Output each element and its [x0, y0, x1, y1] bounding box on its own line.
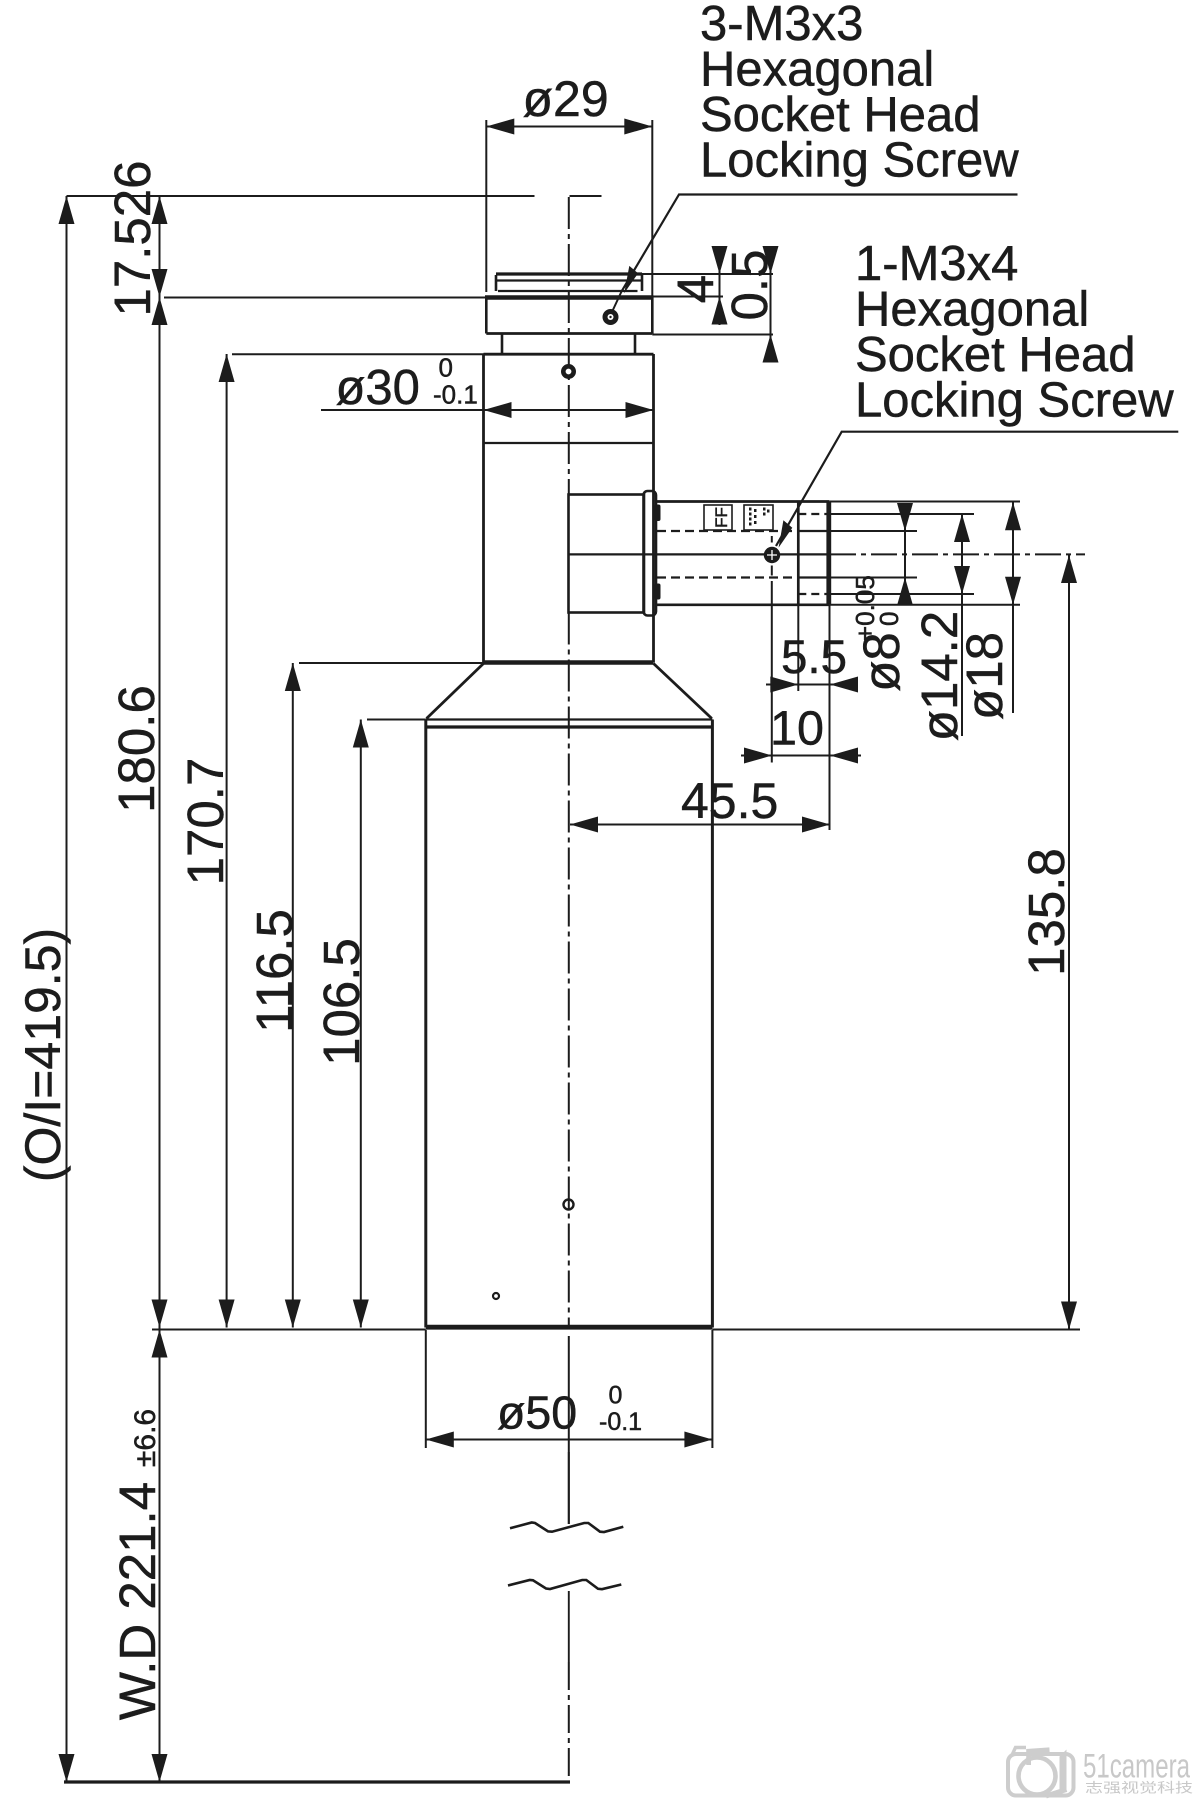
shoulder extension to left y663 — [299, 662, 484, 664]
o50 dimension line — [426, 1439, 713, 1441]
o29 right extension — [651, 120, 653, 296]
break (zigzag) symbol upper — [510, 1523, 623, 1533]
connector top edge extension right — [829, 501, 1020, 503]
ring top extension right y296.5 — [652, 296, 723, 298]
o50 cylinder — [426, 720, 713, 1328]
O/I top arrow — [59, 196, 75, 224]
o50 right extension down — [711, 1330, 713, 1448]
svg-text:106.5: 106.5 — [313, 938, 370, 1066]
o30 cylinder — [484, 354, 654, 663]
116.5 dimension line — [292, 663, 294, 1328]
step extension down x798.3 — [797, 605, 799, 691]
svg-text:ø50: ø50 — [497, 1387, 577, 1439]
180.6 top arrow — [152, 297, 168, 325]
focus ring — [485, 297, 654, 334]
connector flange plate — [644, 491, 657, 616]
svg-text:180.6: 180.6 — [108, 685, 165, 813]
3-M3x3 leader line — [622, 195, 1018, 292]
o8 dimension line — [904, 504, 906, 603]
FF marking box — [704, 505, 732, 530]
hidden thread line o8 upper — [657, 530, 829, 532]
svg-text:-0.1: -0.1 — [433, 380, 478, 410]
180.6 bottom arrow — [152, 1300, 168, 1328]
locking screw on connector (1-M3x4) — [764, 547, 780, 563]
1-M3x4 leader arrowhead — [779, 520, 793, 547]
small circle on centerline inside o50 body — [564, 1200, 574, 1210]
svg-text:170.7: 170.7 — [177, 758, 234, 886]
object/image plane line at bottom — [64, 1780, 570, 1783]
hidden thread line o8 lower — [657, 576, 829, 578]
o29 left extension — [485, 120, 487, 292]
svg-text:+0.05: +0.05 — [850, 575, 880, 641]
ring bottom extension right y334.5 — [652, 334, 773, 336]
o14.2 lower extension right — [831, 593, 975, 595]
top cap disk (retaining cap) — [496, 274, 642, 291]
svg-text:Locking Screw: Locking Screw — [700, 134, 1019, 188]
svg-text:0: 0 — [439, 353, 453, 383]
svg-text:45.5: 45.5 — [681, 773, 778, 829]
W.D bottom arrow — [152, 1754, 168, 1782]
disk top extension right y274 — [642, 273, 773, 275]
svg-text:ø18: ø18 — [956, 632, 1013, 720]
o30 top extension to left y354 — [232, 353, 484, 355]
svg-text:0.5: 0.5 — [721, 250, 778, 321]
o29 dimension line — [486, 126, 652, 128]
svg-text:Locking Screw: Locking Screw — [855, 374, 1174, 428]
svg-text:17.526: 17.526 — [104, 161, 161, 317]
dim 4 line — [719, 246, 721, 325]
connector horizontal centerline — [569, 553, 1085, 555]
51camera watermark logo camera icon — [1008, 1748, 1074, 1797]
certification marks box — [744, 505, 773, 530]
bottom extension line right y1329.5 — [712, 1329, 1080, 1331]
top reference line y196 centre stub — [570, 195, 602, 197]
neck under ring — [502, 334, 635, 355]
svg-text:ø29: ø29 — [523, 71, 609, 127]
o18 dimension line — [1012, 502, 1014, 713]
17.526 bottom arrow — [152, 269, 168, 297]
lens vertical centerline — [568, 197, 570, 1782]
17.526 top arrow — [152, 196, 168, 224]
106.5 dimension line — [360, 720, 362, 1328]
taper cone right edge — [654, 664, 712, 719]
logo digit 1 — [1060, 1750, 1067, 1792]
135.8 dimension line — [1068, 555, 1070, 1330]
screw center vertical line — [771, 536, 773, 763]
o8 upper extension right — [831, 530, 918, 532]
svg-text:(O/I=419.5): (O/I=419.5) — [15, 928, 71, 1182]
shoulder edge — [484, 660, 654, 665]
taper cone left edge — [427, 664, 484, 719]
svg-text:10: 10 — [770, 702, 824, 756]
connector end face — [826, 502, 831, 605]
O/I dimension line — [66, 196, 68, 1782]
hidden line o14.2 lower (tip) — [798, 593, 829, 595]
screw dot on focus ring (3-M3x3) — [603, 309, 619, 325]
svg-text:4: 4 — [667, 275, 724, 303]
o50 top extension to left y719.5 — [367, 719, 426, 721]
svg-text:-0.1: -0.1 — [599, 1408, 642, 1436]
svg-text:116.5: 116.5 — [246, 909, 303, 1033]
dim 5.5 line — [766, 684, 858, 686]
O/I bottom arrow — [59, 1754, 75, 1782]
o8 lower extension right — [831, 577, 918, 579]
o14.2 dimension line — [961, 514, 963, 736]
connector body outline — [656, 502, 830, 605]
svg-text:0: 0 — [874, 612, 904, 626]
end face extension down x829.5 — [829, 605, 831, 830]
connector bottom edge extension right — [829, 604, 1020, 606]
svg-text:ø30: ø30 — [336, 361, 420, 415]
svg-text:志强视觉科技: 志强视觉科技 — [1085, 1781, 1194, 1796]
connector boss on cylinder — [569, 495, 645, 613]
hidden line o14.2 upper (tip) — [798, 513, 829, 515]
3-M3x3 leader tail to screw — [612, 292, 622, 314]
o50 left extension down — [425, 1330, 427, 1448]
dim 0.5 line — [770, 247, 772, 362]
dim 45.5 line — [570, 824, 830, 826]
o30 dimension line — [321, 409, 654, 411]
ring top extension to left y297 — [164, 297, 486, 299]
W.D top arrow — [152, 1330, 168, 1358]
dim 10 line — [741, 755, 861, 757]
svg-text:5.5: 5.5 — [781, 631, 847, 684]
break (zigzag) symbol lower — [508, 1580, 621, 1589]
small dot on o50 body lower left — [493, 1293, 499, 1299]
17.526 / 180.6 / W.D dimension line — [159, 196, 161, 1782]
svg-text:0: 0 — [609, 1382, 623, 1410]
flange set-screw marks — [655, 505, 661, 522]
svg-text:135.8: 135.8 — [1018, 848, 1075, 976]
svg-text:±6.6: ±6.6 — [129, 1409, 162, 1467]
bottom extension line left y1329.5 — [152, 1329, 426, 1331]
svg-text:W.D 221.4: W.D 221.4 — [109, 1482, 166, 1720]
3-M3x3 leader arrowhead — [624, 266, 638, 293]
screw dot on o30 cylinder top — [561, 364, 576, 379]
1-M3x4 leader line — [776, 432, 1178, 546]
svg-text:FF: FF — [712, 507, 731, 528]
o14.2 upper extension right — [831, 513, 975, 515]
top reference line y196 left — [67, 195, 535, 197]
170.7 dimension line — [226, 354, 228, 1328]
